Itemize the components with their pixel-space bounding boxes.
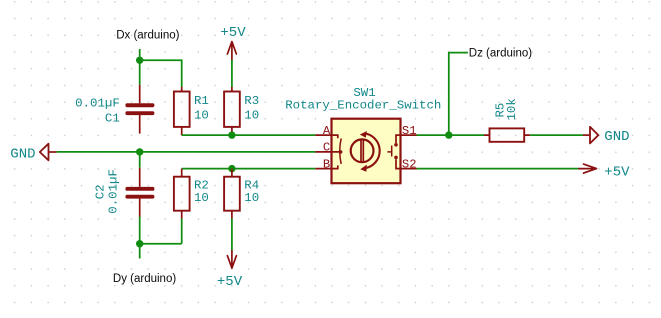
junction dot row A [228, 131, 235, 138]
svg-text:R3: R3 [244, 94, 259, 108]
svg-text:10: 10 [194, 108, 209, 122]
power +5V right symbol [579, 164, 597, 173]
svg-text:10: 10 [244, 191, 259, 205]
resistor R5 [484, 128, 530, 141]
svg-text:S1: S1 [402, 124, 417, 138]
pin C [315, 151, 339, 153]
capacitor C1 [125, 85, 154, 134]
power +5V bottom symbol [227, 251, 236, 268]
junction dot row B [228, 165, 235, 172]
svg-text:B: B [323, 157, 330, 171]
svg-text:GND: GND [10, 146, 35, 162]
switch contact dots [394, 143, 398, 147]
junction dot row C at C1/C2 [136, 148, 143, 155]
svg-text:Dx (arduino): Dx (arduino) [116, 30, 179, 42]
encoder rotation arrowhead bottom [360, 165, 367, 172]
junction dot Dz [445, 131, 452, 138]
encoder common contact dot [339, 150, 343, 154]
svg-text:R1: R1 [194, 94, 209, 108]
svg-text:C1: C1 [105, 112, 120, 126]
resistor R2 [174, 169, 190, 244]
junction dot node Dy [136, 240, 143, 247]
power +5V top symbol [227, 42, 236, 60]
wire row A [182, 134, 316, 136]
pin A [315, 135, 338, 138]
encoder rotor circle [351, 139, 374, 162]
svg-text:Dy (arduino): Dy (arduino) [113, 273, 176, 285]
encoder common contact arc [340, 138, 342, 164]
wire Dz vertical [449, 53, 468, 136]
encoder rotor bars [361, 140, 363, 163]
wire row B [182, 168, 316, 170]
resistor R1 [174, 87, 190, 135]
resistor R3 [224, 87, 240, 135]
wire +5V to R3 [231, 60, 233, 87]
svg-text:+5V: +5V [220, 25, 246, 41]
wire S2 row to +5V right [417, 168, 579, 170]
pin B [315, 165, 338, 168]
wire Dx horizontal to R1 [140, 60, 182, 87]
svg-text:+5V: +5V [604, 165, 630, 181]
wire bottom row to Dy [140, 244, 182, 259]
wire S1 row to R5 [417, 134, 485, 136]
wire row C GND line [57, 151, 316, 153]
svg-text:+5V: +5V [217, 274, 243, 290]
capacitor C2 [125, 152, 154, 244]
svg-text:0.01µF: 0.01µF [106, 169, 120, 214]
svg-text:10k: 10k [505, 98, 519, 120]
pin S1 [396, 135, 417, 143]
encoder rotation arc [366, 134, 380, 169]
encoder rotation arrowhead top [360, 131, 367, 138]
svg-text:A: A [323, 124, 331, 138]
hierarchical label GND left [40, 144, 57, 161]
rotary encoder SW1 body [332, 119, 401, 184]
hierarchical label GND right [583, 127, 598, 144]
svg-text:Rotary_Encoder_Switch: Rotary_Encoder_Switch [285, 98, 441, 112]
svg-text:10: 10 [194, 191, 209, 205]
svg-text:S2: S2 [402, 157, 417, 171]
junction dot node Dx [136, 57, 143, 64]
pin S2 [396, 159, 417, 168]
svg-text:GND: GND [604, 129, 629, 145]
svg-text:0.01µF: 0.01µF [75, 97, 120, 111]
wire R5 to GND right [530, 134, 583, 136]
svg-text:10: 10 [244, 108, 259, 122]
wire Dx vertical [139, 49, 141, 85]
switch actuator bar [387, 146, 391, 157]
svg-text:C: C [323, 141, 330, 155]
resistor R4 [224, 169, 240, 251]
svg-text:Dz (arduino): Dz (arduino) [469, 47, 532, 59]
